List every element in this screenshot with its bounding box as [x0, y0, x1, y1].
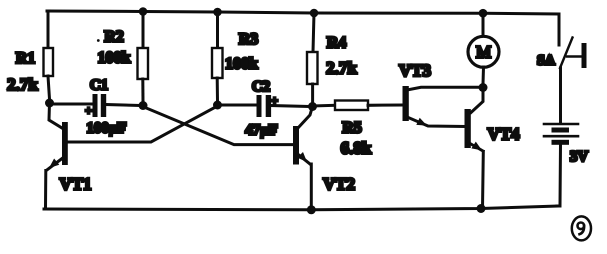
wire top supply rail [47, 11, 559, 14]
svg-text:M: M [476, 43, 491, 62]
resistor R3 [212, 12, 223, 101]
resistor R5 [313, 101, 403, 111]
transistor VT2 [293, 108, 312, 209]
svg-text:+: + [85, 104, 92, 118]
capacitor C2 [218, 95, 309, 117]
resistor R4 [307, 13, 318, 102]
junction node C (R3/C2/cross-wire) [213, 101, 222, 110]
svg-text:6.8k: 6.8k [341, 139, 372, 158]
capacitor C1 [50, 94, 140, 117]
resistor R1 [44, 11, 54, 99]
wire cross-coupling node B to VT2 base [145, 108, 293, 145]
junction node B (R2/C1/cross-wire) [139, 101, 148, 110]
junction node D (R4/C2/R5/VT2 collector) [308, 102, 317, 111]
battery 3V [544, 124, 578, 206]
figure number 9 circled [572, 216, 591, 240]
junction node top of R3 [213, 8, 222, 17]
svg-text:VT1: VT1 [59, 175, 91, 194]
motor M [468, 13, 499, 84]
svg-text:C2: C2 [252, 79, 270, 95]
junction node A (R1/C1/VT1 collector) [45, 99, 54, 108]
junction node top of motor [479, 9, 488, 18]
svg-text:C1: C1 [90, 78, 108, 94]
svg-text:47μF: 47μF [245, 123, 278, 139]
svg-text:100k: 100k [98, 50, 131, 67]
svg-text:100k: 100k [225, 56, 258, 73]
scan speck [97, 39, 100, 42]
svg-text:R1: R1 [16, 50, 36, 67]
junction node top of R2 [139, 7, 148, 16]
switch SA [559, 14, 587, 122]
resistor R2 [138, 12, 149, 102]
svg-text:R4: R4 [327, 35, 347, 52]
transistor VT1 [46, 103, 68, 208]
svg-text:R2: R2 [104, 29, 124, 46]
svg-text:R5: R5 [342, 120, 362, 137]
transistor VT3 [403, 86, 480, 127]
svg-text:VT3: VT3 [399, 61, 431, 80]
svg-text:R3: R3 [239, 31, 259, 48]
svg-text:VT4: VT4 [487, 125, 520, 144]
junction node VT2 emitter on ground rail [307, 205, 316, 214]
junction node top of R4 [310, 9, 319, 18]
wire bottom ground rail [44, 206, 557, 210]
svg-text:2.7k: 2.7k [7, 75, 38, 94]
svg-text:VT2: VT2 [323, 175, 355, 194]
transistor VT4 [465, 88, 484, 209]
junction node VT4 emitter on ground rail [477, 204, 486, 213]
svg-text:2.7k: 2.7k [326, 59, 357, 78]
svg-text:100μF: 100μF [86, 121, 126, 137]
svg-text:3V: 3V [570, 149, 589, 165]
wire cross-coupling node C to VT1 base [68, 107, 216, 142]
svg-text:+: + [271, 94, 278, 108]
junction node F (motor/VT3 collector/VT4 collector) [479, 83, 488, 92]
svg-text:SA: SA [537, 54, 556, 69]
